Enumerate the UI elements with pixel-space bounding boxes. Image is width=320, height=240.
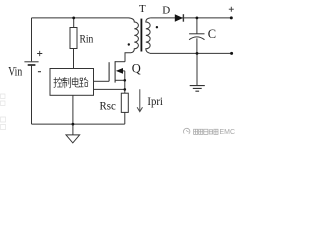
resistor Rsc (121, 93, 128, 112)
control box U1 (50, 69, 94, 96)
junction dot source (124, 79, 127, 82)
svg-text:Vin: Vin (8, 65, 23, 79)
wire capacitor top lead (196, 18, 198, 34)
phase dot primary (128, 43, 130, 45)
svg-text:C: C (208, 27, 216, 41)
current arrow Ipri (137, 89, 142, 111)
junction dot capacitor bottom (196, 52, 199, 55)
wire Rin top lead (73, 18, 75, 28)
battery Vin short plate (28, 64, 36, 66)
wire secondary top rail (150, 17, 231, 19)
wire source lead (115, 79, 125, 81)
ground (earth bars) (190, 86, 205, 92)
label control box text 控 (54, 77, 88, 87)
transistor Q1 body arrow (116, 68, 123, 74)
watermark left edge faint marks (1, 94, 6, 130)
junction dot bottom rail (72, 123, 75, 126)
svg-text:D: D (162, 5, 170, 17)
resistor Rin (70, 28, 77, 49)
watermark text glyphs (194, 129, 218, 134)
label control box text 电 (72, 77, 79, 87)
capacitor C top plate (189, 33, 204, 35)
wire left rail below battery (31, 65, 33, 124)
junction dot capacitor top (196, 17, 199, 20)
svg-text:T: T (139, 3, 146, 15)
output plus sign (229, 7, 234, 12)
wire Rsc bottom lead (124, 112, 126, 124)
phase dot secondary (156, 26, 158, 28)
wire capacitor bottom lead (196, 38, 198, 53)
wire body to source (123, 71, 125, 80)
ground (chassis triangle) (66, 135, 80, 143)
capacitor C curved plate (189, 37, 204, 40)
battery plus sign (37, 51, 42, 56)
wire current sense to control box (94, 88, 125, 90)
junction dot Rin top (72, 17, 75, 20)
terminal dot output plus (230, 16, 233, 19)
svg-text:Q: Q (132, 61, 141, 75)
transistor Q1 channel bar (114, 61, 116, 82)
wire ground stub (72, 124, 74, 135)
battery Vin long plate (24, 61, 38, 63)
wire secondary bottom rail (150, 52, 232, 54)
label control box text 路 (80, 77, 88, 86)
svg-text:Rin: Rin (80, 32, 94, 46)
wire earth stub (196, 53, 198, 85)
wire left rail (Vin top) (31, 18, 33, 61)
transistor Q1 gate bar (108, 62, 110, 81)
battery minus sign (38, 71, 41, 73)
svg-text:Ipri: Ipri (147, 96, 163, 108)
diode D cathode bar (182, 14, 184, 22)
svg-text:Rsc: Rsc (100, 99, 116, 113)
transformer T secondary winding (146, 18, 151, 53)
watermark icon (183, 128, 189, 134)
label control box text 制 (62, 77, 70, 87)
wire gate lead (94, 80, 110, 82)
svg-text:EMC: EMC (220, 129, 236, 136)
wire source down to Rsc (124, 80, 126, 93)
wire bottom rail (32, 123, 125, 125)
wire drain lead (115, 61, 125, 63)
junction dot sense (124, 88, 127, 91)
wire control box bottom lead (72, 95, 74, 124)
terminal dot output minus (230, 52, 233, 55)
wire top rail primary (32, 17, 129, 19)
wire Rin to control box (73, 49, 75, 69)
transformer T core (141, 19, 143, 52)
transformer T primary winding (125, 18, 138, 62)
diode D triangle (175, 14, 183, 22)
